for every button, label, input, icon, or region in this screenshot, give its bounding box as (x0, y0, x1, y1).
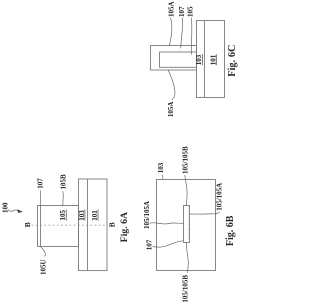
underline 103 (6A) (84, 209, 86, 220)
svg-text:100: 100 (2, 202, 10, 213)
svg-text:103: 103 (78, 210, 86, 221)
svg-text:Fig. 6C: Fig. 6C (227, 44, 238, 76)
leader 105B (6A) (62, 191, 65, 206)
svg-text:105B: 105B (59, 174, 67, 190)
leader 105A top (6C) (169, 18, 172, 47)
svg-text:103: 103 (195, 54, 203, 65)
leader 105/105B top (6B) (185, 175, 187, 206)
svg-text:105A: 105A (167, 1, 175, 17)
svg-text:B: B (107, 222, 116, 227)
layer 103 boundary (6C) (204, 21, 206, 98)
leader 103 (6B) (162, 175, 163, 179)
svg-text:105U: 105U (39, 259, 47, 275)
svg-text:105/105B: 105/105B (182, 146, 190, 174)
underline 101 (6C) (215, 54, 217, 65)
svg-text:Fig. 6B: Fig. 6B (225, 215, 236, 246)
underline 105 (6A) (65, 210, 67, 221)
svg-text:105/105B: 105/105B (182, 275, 190, 303)
leader 107 top (6A) (39, 190, 42, 205)
section line B-B dashed (32, 224, 108, 226)
leader 105/105A left (6B) (150, 223, 184, 224)
svg-text:107: 107 (36, 178, 44, 189)
svg-text:B: B (23, 222, 32, 227)
arrowhead 100 (17, 209, 22, 213)
svg-text:Fig. 6A: Fig. 6A (119, 212, 130, 242)
gate rect 105 (6A) (38, 206, 79, 247)
leader 105 (6C) (190, 18, 193, 55)
leader 107 (6C) (181, 18, 183, 49)
inner bar 105/105B (6B) (184, 206, 190, 243)
active strip outline (6A) (79, 179, 108, 271)
leader 105U (6A) (41, 247, 46, 257)
arrow line 100 (8, 210, 18, 211)
divider 103/101 (6A) (87, 179, 89, 271)
svg-text:103: 103 (157, 162, 165, 173)
dielectric line 107 (6A) (40, 206, 42, 247)
svg-text:105A: 105A (167, 102, 175, 118)
leader 105/105A right (6B) (190, 212, 220, 214)
svg-text:107: 107 (178, 6, 186, 17)
gate inner rect 105 (6C) (160, 52, 197, 67)
svg-text:107: 107 (146, 239, 154, 250)
underline 103 (6C) (202, 54, 204, 65)
dotted texture line in bar (6B) (187, 207, 189, 242)
svg-text:105: 105 (187, 6, 195, 17)
svg-text:105/105A: 105/105A (216, 183, 224, 211)
svg-text:105: 105 (59, 210, 67, 221)
leader 105A bottom (6C) (168, 70, 175, 100)
outer rect (6B) (157, 180, 216, 271)
leader 105/105B bottom (6B) (187, 242, 189, 272)
svg-text:101: 101 (210, 54, 218, 65)
substrate 101 outline (6C) (197, 21, 225, 98)
svg-text:105/105A: 105/105A (143, 201, 151, 229)
underline 101 (6A) (97, 209, 99, 220)
leader 107 (6B) (153, 241, 184, 247)
spacer outer rect 105A (6C) (151, 46, 197, 71)
svg-text:101: 101 (91, 210, 99, 221)
